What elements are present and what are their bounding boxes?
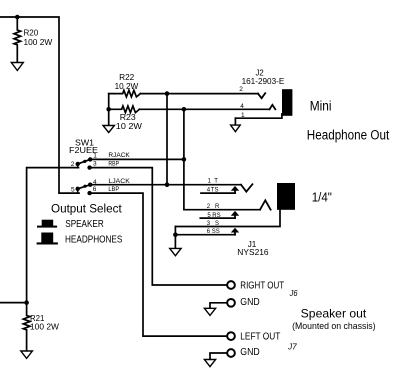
svg-text:Speaker out: Speaker out — [301, 307, 367, 321]
svg-text:1: 1 — [208, 179, 212, 185]
label GND right — [240, 297, 259, 308]
svg-text:3: 3 — [93, 161, 97, 168]
label SW1 pins 1 2 3 — [71, 153, 98, 169]
svg-text:NYS216: NYS216 — [237, 247, 269, 257]
label Speaker out — [301, 307, 367, 321]
label SW1 — [69, 137, 98, 155]
node junction bottom wire / R21 — [24, 300, 29, 305]
resistor R23 — [109, 106, 140, 113]
node junction R23 left — [106, 107, 111, 112]
label J1 pin 6 SS — [207, 229, 220, 235]
label J1 pin 5 RS — [207, 213, 220, 219]
svg-text:RIGHT OUT: RIGHT OUT — [240, 280, 284, 291]
svg-text:6: 6 — [93, 186, 97, 193]
node junction R22 / vertical — [165, 91, 170, 96]
label GND left — [240, 347, 259, 358]
node junction sleeve/sleeve-switch — [173, 232, 178, 237]
label R22 value — [115, 73, 139, 91]
svg-text:J6: J6 — [289, 289, 298, 298]
label J1 pin 4 TS — [207, 187, 219, 193]
wire GND stub left — [210, 353, 227, 360]
resistor R22 — [109, 90, 141, 97]
wire LBP to LEFT OUT — [90, 193, 227, 336]
connector J2 ring contact — [270, 105, 276, 109]
svg-text:RJACK: RJACK — [108, 153, 129, 159]
svg-text:100 2W: 100 2W — [30, 322, 59, 331]
ground below R21 — [21, 351, 33, 358]
svg-text:4: 4 — [240, 103, 244, 110]
connector J1 body — [277, 183, 295, 210]
switch SW1 section A (pins 1,2,3) — [77, 164, 79, 168]
wire RBP to RIGHT OUT — [90, 168, 227, 285]
icon speaker position — [37, 220, 57, 228]
svg-text:GND: GND — [240, 347, 259, 358]
label J2 pin 2 — [239, 86, 243, 93]
ground below R20 — [11, 63, 23, 71]
svg-text:Output Select: Output Select — [51, 202, 122, 216]
label RJACK RBP — [108, 153, 129, 167]
svg-text:LEFT OUT: LEFT OUT — [240, 332, 280, 343]
connector J2 tip contact — [258, 93, 265, 98]
svg-text:RBP: RBP — [108, 162, 119, 168]
arrow J1 sleeve switch — [234, 233, 236, 235]
svg-text:HEADPHONES: HEADPHONES — [65, 235, 122, 246]
svg-text:Headphone Out: Headphone Out — [307, 128, 390, 143]
svg-text:T: T — [214, 179, 218, 185]
wire R22 junction down to LJACK line — [166, 94, 168, 185]
label J1 — [237, 239, 269, 257]
connector J1 tip contact — [241, 184, 252, 191]
node junction top wire / R20 — [15, 15, 20, 20]
label SPEAKER — [65, 219, 104, 230]
label Mini — [310, 99, 332, 114]
svg-text:GND: GND — [240, 297, 259, 308]
svg-text:LBP: LBP — [108, 187, 119, 193]
svg-text:R: R — [215, 204, 220, 210]
wire GND stub right — [210, 303, 227, 309]
switch SW1 section B (pins 4,5,6) — [77, 189, 79, 193]
connector J2 body — [282, 89, 292, 116]
connector J1 ring contact — [260, 200, 271, 209]
node junction RJACK / vertical — [182, 157, 187, 162]
label 1/4" — [312, 190, 332, 205]
label J1 pin 2 R — [207, 204, 220, 210]
svg-text:1/4": 1/4" — [312, 190, 332, 205]
label J7 — [287, 343, 297, 352]
svg-text:1: 1 — [93, 153, 97, 160]
svg-text:Mini: Mini — [310, 99, 332, 114]
label Headphone Out — [307, 128, 390, 143]
wire J1 tip switch stub — [201, 192, 235, 194]
label HEADPHONES — [65, 235, 122, 246]
arrow J1 tip switch — [234, 190, 236, 193]
resistor R21 — [23, 303, 30, 351]
label RIGHT OUT — [240, 280, 284, 291]
label Mounted on chassis — [292, 321, 376, 331]
svg-text:R23: R23 — [120, 113, 136, 122]
connector GND circle left — [227, 349, 235, 357]
ground left out — [204, 360, 215, 367]
label J2 pin 1 — [241, 112, 245, 119]
ground right out — [204, 308, 215, 315]
svg-text:(Mounted on chassis): (Mounted on chassis) — [292, 321, 376, 331]
wire ground stem below R23 — [108, 109, 110, 125]
connector LEFT OUT circle — [227, 332, 235, 340]
wire J1 ground riser — [174, 227, 176, 249]
wire RJACK — [90, 158, 184, 160]
wire R23 output to J2 pin4 — [139, 108, 269, 110]
wire J1 sleeve — [175, 210, 280, 227]
svg-text:161-2903-E: 161-2903-E — [242, 76, 285, 86]
label J2 — [242, 67, 285, 86]
wire J2 sleeve — [235, 114, 282, 118]
svg-text:2: 2 — [71, 161, 75, 168]
ground below R23 — [103, 126, 114, 133]
svg-text:10 2W: 10 2W — [115, 82, 139, 91]
svg-text:100 2W: 100 2W — [24, 38, 53, 47]
wire R22/R23 left link — [108, 94, 110, 110]
label R23 value — [116, 113, 143, 131]
svg-text:R20: R20 — [24, 29, 39, 38]
wire top input rail to SW1 pin5 — [0, 17, 79, 193]
label SW1 pins 4 5 6 — [71, 179, 97, 194]
connector GND circle right — [227, 299, 235, 307]
ground J2 — [231, 125, 241, 132]
label LEFT OUT — [240, 332, 280, 343]
label LJACK LBP — [108, 179, 129, 193]
wire left input rail to SW1 pin2 — [27, 168, 79, 303]
node junction LJACK / vertical from R22 — [165, 182, 170, 187]
label Output Select — [51, 202, 122, 216]
arrow J1 ring switch — [234, 216, 236, 218]
icon headphones position — [37, 233, 58, 245]
wire R22 output to J2 pin2 — [140, 93, 258, 95]
label J1 pin 1 T — [208, 179, 219, 185]
wire bottom-left input — [0, 302, 27, 304]
wire LJACK to J1 tip — [90, 184, 241, 186]
node junction R23 / vertical — [182, 107, 187, 112]
svg-text:SPEAKER: SPEAKER — [65, 219, 104, 230]
svg-text:2: 2 — [239, 86, 243, 93]
svg-text:J7: J7 — [287, 343, 297, 352]
svg-text:5: 5 — [71, 187, 75, 194]
label R21 value — [30, 314, 59, 331]
label J6 — [289, 289, 298, 298]
svg-text:10 2W: 10 2W — [116, 122, 143, 131]
label J1 pin 3 S — [207, 221, 219, 227]
wire J2 ground stem — [234, 118, 236, 125]
ground J1 — [170, 248, 181, 255]
label J2 pin 4 — [240, 103, 244, 110]
wire J1 ring switch stub — [200, 217, 235, 219]
connector RIGHT OUT circle — [227, 281, 235, 289]
resistor R20 — [14, 17, 21, 63]
label R20 value — [24, 29, 53, 47]
wire R23 junction down to RJACK line and J1 ring — [184, 109, 260, 209]
wire J1 sleeve switch — [175, 234, 235, 236]
